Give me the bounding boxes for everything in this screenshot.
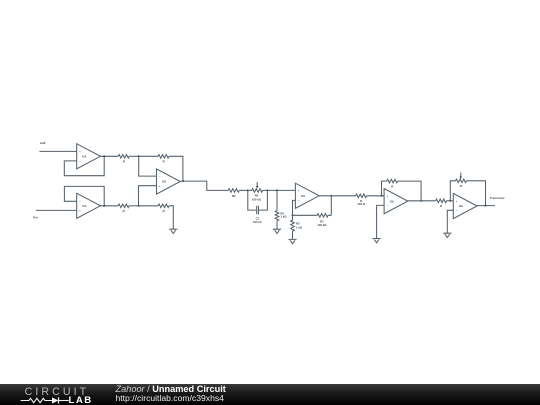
node B junction bbox=[137, 205, 139, 207]
svg-text:+: + bbox=[298, 189, 300, 193]
wire U4 - input down bbox=[293, 200, 296, 215]
ground G5 bbox=[443, 233, 451, 237]
svg-text:OA: OA bbox=[301, 194, 305, 198]
svg-text:100 Ω: 100 Ω bbox=[357, 202, 365, 206]
wire R2 to node C bbox=[239, 189, 248, 191]
wire node A down to U3 - input bbox=[139, 156, 157, 176]
svg-text:1 kΩ: 1 kΩ bbox=[280, 215, 287, 219]
node I junction bbox=[420, 200, 422, 202]
svg-text:Pot: Pot bbox=[33, 215, 38, 219]
svg-text:+: + bbox=[79, 209, 81, 213]
wire Hall input to U1 + bbox=[39, 150, 76, 152]
svg-text:R: R bbox=[163, 209, 165, 213]
svg-text:100 nF: 100 nF bbox=[253, 220, 262, 224]
resistor R4 1k (to ground) bbox=[275, 190, 287, 220]
wire R3 to ground bbox=[292, 231, 294, 239]
svg-text:R: R bbox=[391, 184, 393, 188]
svg-text:R: R bbox=[163, 159, 165, 163]
logo waveform resistor-diode symbol bbox=[19, 396, 71, 405]
svg-text:–: – bbox=[387, 204, 389, 208]
op-amp U6 (OA) bbox=[453, 193, 477, 218]
resistor R3 1k (to ground) bbox=[291, 215, 303, 231]
svg-text:OA: OA bbox=[459, 204, 463, 208]
node D junction bbox=[266, 189, 268, 191]
wire node B to ground resistor bbox=[139, 205, 159, 207]
node U1 output junction bbox=[103, 155, 105, 157]
op-amp U4 (OA) bbox=[295, 183, 319, 208]
resistor R 100 ohm bbox=[356, 194, 367, 206]
wire R to U6 + node bbox=[447, 200, 454, 202]
ground G3 bbox=[288, 239, 296, 243]
wire U3 output to R2 bbox=[180, 181, 228, 190]
resistor R (U6 input) bbox=[436, 199, 447, 208]
node G junction bbox=[330, 195, 332, 197]
svg-text:+: + bbox=[79, 150, 81, 154]
ground G1 bbox=[169, 229, 177, 233]
svg-text:+: + bbox=[387, 194, 389, 198]
svg-text:100 kΩ: 100 kΩ bbox=[252, 198, 262, 202]
node H junction bbox=[380, 195, 382, 197]
svg-text:R2: R2 bbox=[232, 194, 236, 198]
node K junction bbox=[484, 205, 486, 207]
wire Pot input to U2 + bbox=[36, 209, 77, 211]
resistor R (bottom to ground) bbox=[158, 204, 169, 213]
wire U5 - input to ground bbox=[377, 205, 385, 238]
svg-text:R: R bbox=[123, 209, 125, 213]
op-amp U3 (difference OA) bbox=[157, 169, 181, 194]
resistor R (U3 feedback) bbox=[158, 155, 169, 164]
svg-text:–: – bbox=[79, 159, 81, 163]
ground G2 bbox=[273, 229, 281, 233]
wire U1 feedback loop bbox=[64, 156, 104, 175]
ground G4 bbox=[373, 239, 381, 243]
resistor R (U5 feedback) bbox=[387, 179, 398, 188]
logo LAB text bbox=[69, 395, 93, 405]
wire U1 output bbox=[100, 155, 118, 157]
wire R to U5 + node bbox=[367, 195, 385, 197]
svg-text:R: R bbox=[123, 159, 125, 163]
wire node B up to U3 + input bbox=[139, 186, 157, 206]
resistor R2 bbox=[228, 189, 239, 199]
capacitor C1 100nF bbox=[248, 190, 268, 224]
wire U2 output bbox=[100, 205, 118, 207]
wire U6 output bbox=[477, 205, 495, 207]
title line bbox=[116, 384, 226, 394]
wire node D to node E bbox=[267, 189, 295, 191]
svg-text:Hall: Hall bbox=[40, 141, 45, 145]
svg-text:R: R bbox=[460, 184, 462, 188]
svg-text:OA: OA bbox=[82, 204, 86, 208]
svg-text:–: – bbox=[159, 174, 161, 178]
wire U5 output to R bbox=[408, 200, 436, 202]
wire R1 up to U4 output bbox=[330, 196, 332, 216]
wire node J up to pot R bbox=[450, 181, 455, 201]
svg-text:100 kΩ: 100 kΩ bbox=[317, 223, 327, 227]
svg-text:OA: OA bbox=[390, 199, 394, 203]
node J junction bbox=[449, 200, 451, 202]
op-amp U1 (top buffer OA) bbox=[77, 144, 101, 169]
node E junction bbox=[276, 189, 278, 191]
wire R to node A bbox=[129, 155, 139, 157]
op-amp U5 (OA) bbox=[384, 189, 408, 214]
svg-text:OA: OA bbox=[82, 155, 86, 159]
node A junction bbox=[138, 155, 140, 157]
svg-text:+: + bbox=[456, 199, 458, 203]
wire R to node B bbox=[129, 205, 138, 207]
svg-text:–: – bbox=[79, 200, 81, 204]
resistor R (bottom rail first) bbox=[118, 204, 129, 213]
svg-text:R: R bbox=[440, 204, 442, 208]
op-amp U2 (bottom buffer OA) bbox=[77, 193, 101, 218]
footer bar bbox=[0, 384, 540, 405]
svg-text:OA: OA bbox=[162, 180, 166, 184]
resistor R1 100k (feedback) bbox=[293, 214, 332, 228]
svg-text:Transistor: Transistor bbox=[490, 196, 506, 200]
wire R4 to ground bbox=[276, 221, 278, 229]
svg-text:–: – bbox=[456, 209, 458, 213]
node U2 output junction bbox=[103, 205, 105, 207]
wire node H up to feedback R bbox=[382, 181, 387, 196]
url line bbox=[116, 393, 224, 403]
wire feedback R to U3 output bbox=[169, 156, 183, 181]
potentiometer R (U6 feedback) bbox=[456, 173, 467, 189]
wire pot R down to U6 output bbox=[467, 181, 486, 206]
svg-text:+: + bbox=[159, 184, 161, 188]
potentiometer R5 100k bbox=[248, 182, 268, 202]
wire R to ground bbox=[169, 206, 173, 229]
wire U6 - input to ground bbox=[447, 210, 453, 233]
resistor R (top rail first) bbox=[118, 155, 129, 164]
svg-text:1 kΩ: 1 kΩ bbox=[296, 226, 303, 230]
node F junction bbox=[291, 214, 293, 216]
logo CIRCUIT text bbox=[25, 386, 90, 398]
node U3 output junction bbox=[182, 180, 184, 182]
wire U2 feedback loop bbox=[64, 186, 104, 205]
wire node A to feedback resistor bbox=[139, 155, 158, 157]
wire U4 output to R 100 bbox=[319, 195, 356, 197]
node C junction bbox=[247, 189, 249, 191]
wire feedback R down to U5 output bbox=[398, 181, 421, 201]
svg-text:–: – bbox=[298, 199, 300, 203]
